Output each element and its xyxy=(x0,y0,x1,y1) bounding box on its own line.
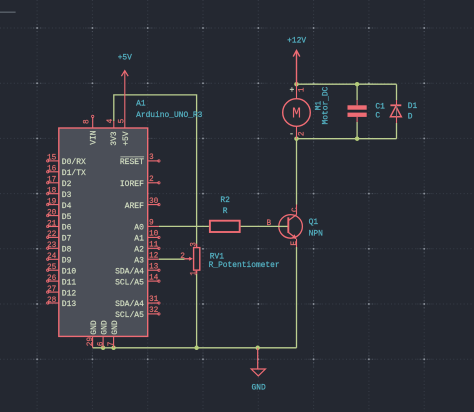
svg-text:D4: D4 xyxy=(62,202,72,211)
svg-text:A1: A1 xyxy=(136,99,146,108)
svg-text:24: 24 xyxy=(47,253,57,261)
svg-text:D10: D10 xyxy=(62,267,77,276)
svg-text:Q1: Q1 xyxy=(309,218,319,227)
svg-text:GND: GND xyxy=(251,384,265,393)
svg-text:1: 1 xyxy=(191,271,199,276)
svg-text:1: 1 xyxy=(299,87,307,92)
svg-text:22: 22 xyxy=(47,231,57,239)
svg-text:A1: A1 xyxy=(134,235,144,244)
svg-text:A3: A3 xyxy=(134,256,144,265)
svg-text:18: 18 xyxy=(47,188,57,196)
svg-text:RESET: RESET xyxy=(120,158,144,167)
svg-text:20: 20 xyxy=(47,209,57,217)
svg-text:R: R xyxy=(223,207,228,216)
svg-text:A0: A0 xyxy=(134,224,144,233)
svg-text:C: C xyxy=(292,207,300,212)
svg-text:2: 2 xyxy=(298,131,306,136)
svg-text:+: + xyxy=(289,86,294,95)
svg-text:12: 12 xyxy=(149,252,159,260)
svg-text:3V3: 3V3 xyxy=(110,131,119,146)
svg-text:SDA/A4: SDA/A4 xyxy=(115,300,144,309)
svg-text:26: 26 xyxy=(47,275,57,283)
svg-text:30: 30 xyxy=(149,198,159,206)
svg-text:GND: GND xyxy=(100,320,109,335)
svg-text:SCL/A5: SCL/A5 xyxy=(115,278,144,287)
svg-text:31: 31 xyxy=(149,296,159,304)
svg-text:D6: D6 xyxy=(62,224,72,233)
svg-text:D1/TX: D1/TX xyxy=(62,169,86,178)
svg-text:27: 27 xyxy=(47,286,57,294)
svg-text:8: 8 xyxy=(84,119,92,124)
svg-text:14: 14 xyxy=(149,274,159,282)
svg-text:M: M xyxy=(292,106,301,123)
svg-text:D: D xyxy=(408,113,413,122)
svg-text:D1: D1 xyxy=(408,102,418,111)
svg-text:D7: D7 xyxy=(62,235,72,244)
svg-text:D8: D8 xyxy=(62,246,72,255)
svg-text:17: 17 xyxy=(47,177,57,185)
svg-text:IOREF: IOREF xyxy=(120,180,144,189)
svg-text:AREF: AREF xyxy=(125,202,144,211)
svg-text:4: 4 xyxy=(107,118,115,123)
svg-text:9: 9 xyxy=(149,220,154,228)
svg-text:2: 2 xyxy=(149,176,154,184)
svg-text:2: 2 xyxy=(180,253,185,261)
svg-text:25: 25 xyxy=(47,264,57,272)
svg-text:28: 28 xyxy=(47,297,57,305)
svg-text:3: 3 xyxy=(191,242,199,247)
svg-text:GND: GND xyxy=(90,320,99,335)
svg-text:SCL/A5: SCL/A5 xyxy=(115,311,144,320)
svg-text:16: 16 xyxy=(47,166,57,174)
svg-text:VIN: VIN xyxy=(89,130,98,145)
svg-text:15: 15 xyxy=(47,155,57,163)
svg-text:D9: D9 xyxy=(62,257,72,266)
svg-text:D2: D2 xyxy=(62,180,72,189)
svg-text:NPN: NPN xyxy=(309,229,323,238)
svg-text:A2: A2 xyxy=(134,246,144,255)
svg-text:D13: D13 xyxy=(62,300,77,309)
svg-text:D5: D5 xyxy=(62,213,72,222)
svg-text:D3: D3 xyxy=(62,191,72,200)
svg-text:Motor_DC: Motor_DC xyxy=(321,86,330,124)
svg-text:7: 7 xyxy=(108,341,116,346)
svg-text:B: B xyxy=(267,220,272,228)
svg-text:R2: R2 xyxy=(220,196,230,205)
svg-text:Arduino_UNO_R3: Arduino_UNO_R3 xyxy=(136,111,203,120)
svg-text:D11: D11 xyxy=(62,278,77,287)
svg-text:C1: C1 xyxy=(375,103,385,112)
svg-text:3: 3 xyxy=(149,154,154,162)
svg-text:32: 32 xyxy=(149,307,159,315)
svg-text:19: 19 xyxy=(47,198,57,206)
svg-text:21: 21 xyxy=(47,220,57,228)
svg-text:13: 13 xyxy=(149,263,159,271)
svg-text:-: - xyxy=(289,130,294,139)
svg-text:29: 29 xyxy=(87,337,95,347)
svg-text:C: C xyxy=(375,112,380,121)
svg-text:23: 23 xyxy=(47,242,57,250)
svg-text:D0/RX: D0/RX xyxy=(62,158,86,167)
svg-text:+5V: +5V xyxy=(122,131,131,146)
svg-text:D12: D12 xyxy=(62,289,77,298)
svg-text:GND: GND xyxy=(111,320,120,335)
svg-text:11: 11 xyxy=(149,242,159,250)
svg-text:E: E xyxy=(291,241,299,246)
svg-text:R_Potentiometer: R_Potentiometer xyxy=(209,261,280,270)
svg-text:10: 10 xyxy=(149,231,159,239)
svg-text:+5V: +5V xyxy=(118,54,132,63)
svg-text:+12V: +12V xyxy=(287,37,306,46)
svg-text:SDA/A4: SDA/A4 xyxy=(115,267,144,276)
svg-text:5: 5 xyxy=(118,118,126,123)
svg-text:6: 6 xyxy=(98,341,106,346)
